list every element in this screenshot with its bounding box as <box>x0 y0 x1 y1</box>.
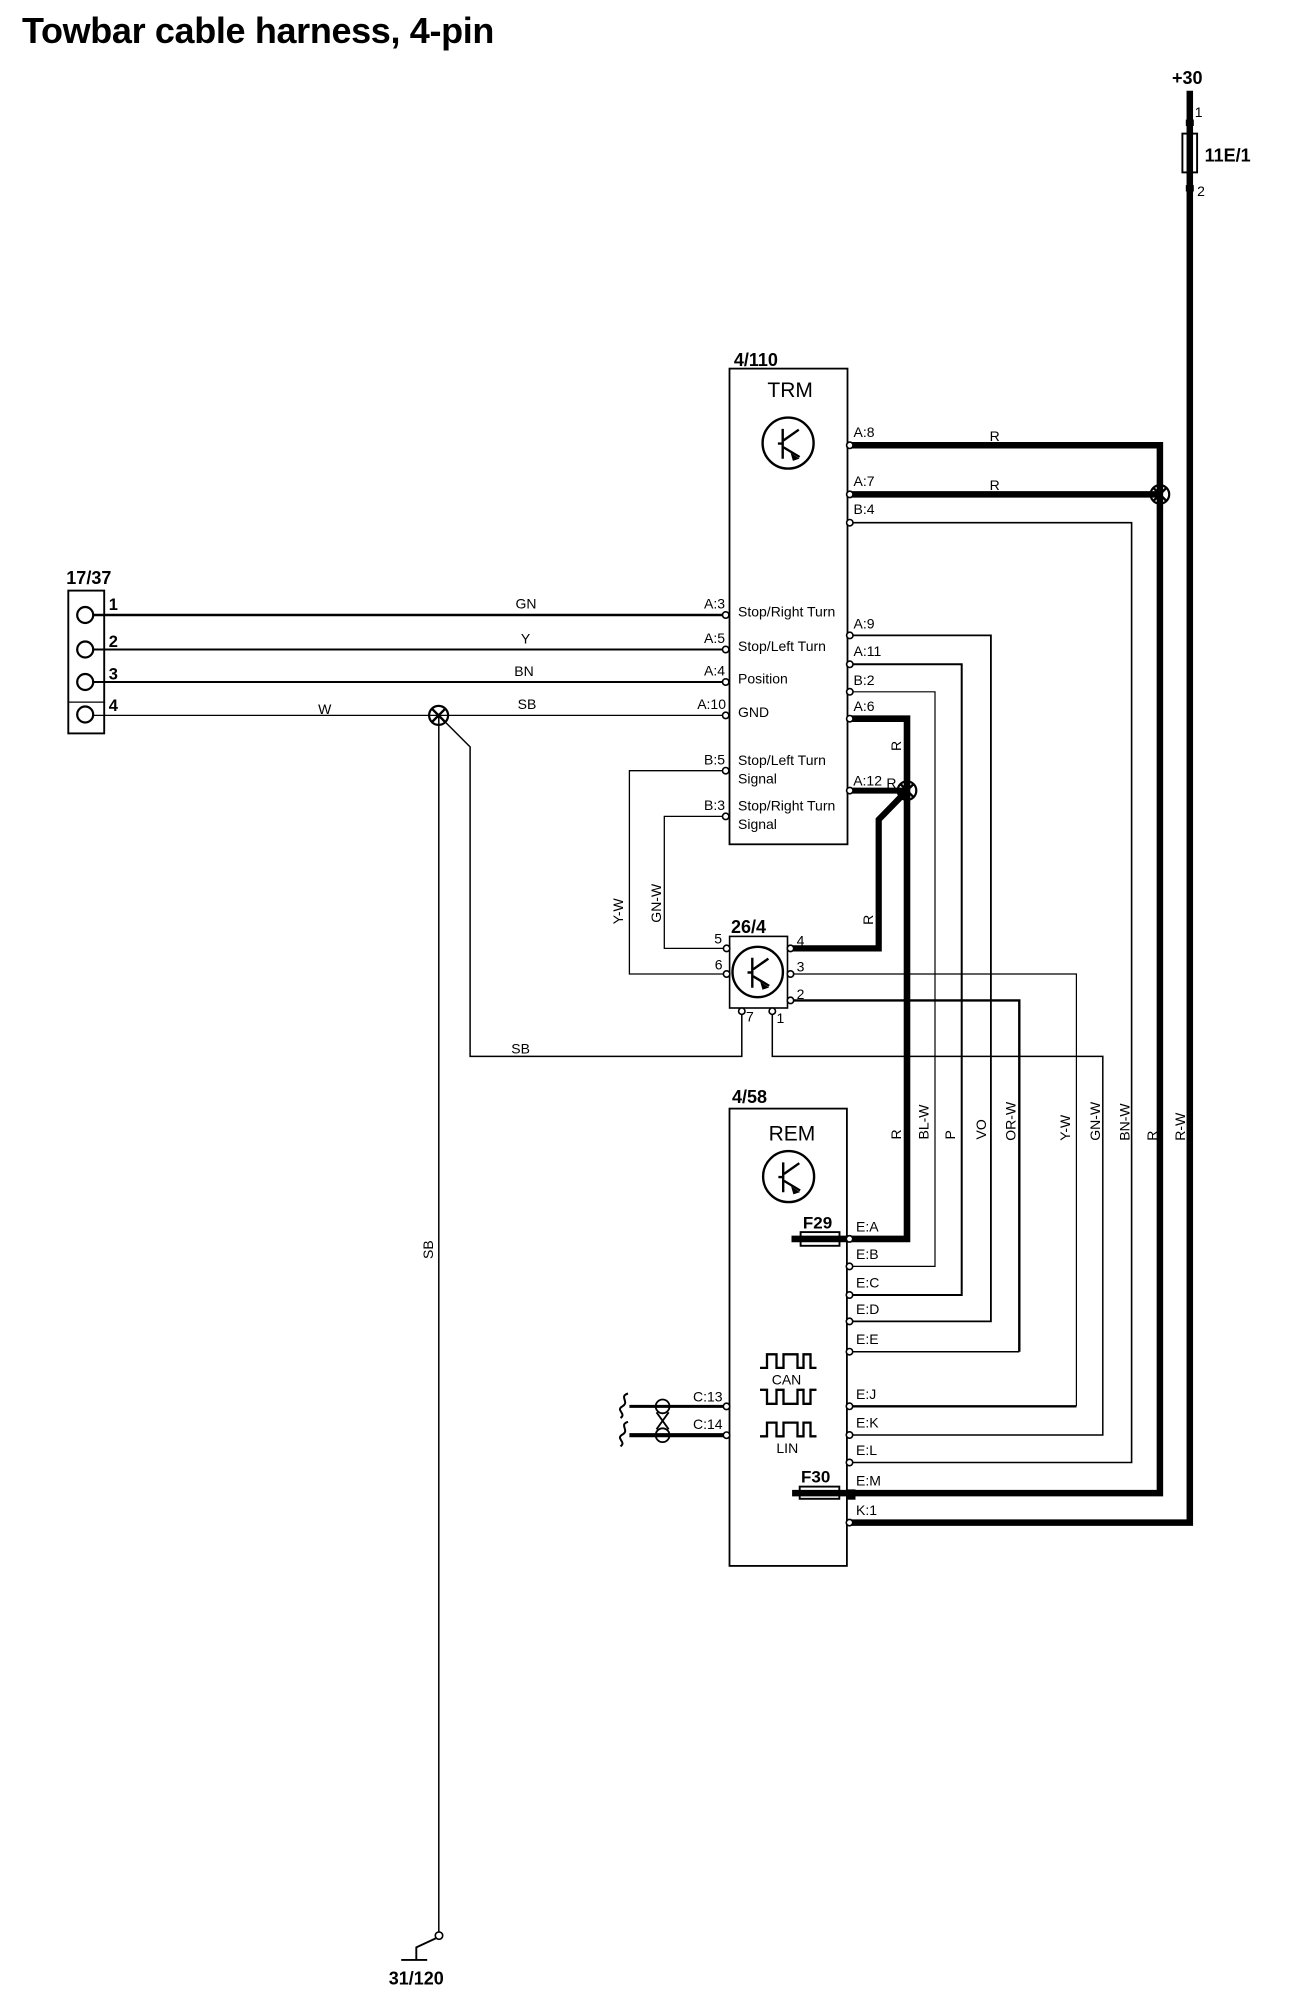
wire SB from junction down to ground 31/120 <box>438 715 440 1932</box>
connector 17/37 pin 3 circle <box>77 674 93 690</box>
svg-text:R: R <box>1144 1131 1160 1141</box>
svg-text:E:J: E:J <box>856 1386 876 1402</box>
CAN bus symbol square wave lower <box>760 1390 817 1404</box>
fuse 11E/1 <box>1182 134 1197 173</box>
svg-text:REM: REM <box>769 1123 816 1146</box>
REM pin circle E:D <box>846 1318 852 1324</box>
svg-text:K:1: K:1 <box>856 1502 877 1518</box>
TRM pin circle A:3 <box>723 612 729 618</box>
svg-text:R-W: R-W <box>1172 1112 1188 1141</box>
svg-text:Towbar cable harness, 4-pin: Towbar cable harness, 4-pin <box>22 10 494 51</box>
TRM pin circle A:11 <box>847 661 853 667</box>
26/4 pin circle 5 <box>723 945 729 951</box>
svg-text:Y: Y <box>521 631 531 647</box>
26/4 pin circle 7 <box>739 1008 745 1014</box>
connector 17/37 body <box>68 591 104 734</box>
svg-text:BN-W: BN-W <box>1116 1103 1132 1141</box>
svg-text:VO: VO <box>973 1119 989 1139</box>
svg-text:R: R <box>990 428 1000 444</box>
wire BN-W from TRM B:4 down to REM E:L <box>848 523 1132 1463</box>
svg-text:A:7: A:7 <box>854 473 875 489</box>
TRM pin circle B:4 <box>847 520 853 526</box>
wire R from TRM A:12 to junction <box>848 788 908 794</box>
fuse F30 inside REM <box>800 1487 840 1499</box>
svg-text:C:14: C:14 <box>693 1416 723 1432</box>
26/4 pin circle 1 <box>769 1008 775 1014</box>
svg-text:E:K: E:K <box>856 1415 879 1431</box>
svg-text:GND: GND <box>738 704 769 720</box>
junction (solder point) W/SB wire <box>429 706 448 725</box>
svg-text:2: 2 <box>1197 183 1205 199</box>
TRM pin circle B:3 <box>723 813 729 819</box>
svg-text:A:8: A:8 <box>854 424 875 440</box>
REM pin circle E:B <box>846 1263 852 1269</box>
svg-text:F29: F29 <box>803 1214 832 1233</box>
svg-text:11E/1: 11E/1 <box>1205 145 1251 165</box>
svg-text:E:A: E:A <box>856 1218 879 1234</box>
control unit REM 4/58 box <box>730 1109 847 1566</box>
wire C:13 twisted pair upper <box>629 1405 727 1408</box>
svg-text:E:M: E:M <box>856 1473 881 1489</box>
svg-text:F30: F30 <box>801 1468 830 1487</box>
control unit TRM 4/110 box <box>730 369 848 845</box>
svg-text:4/58: 4/58 <box>732 1087 767 1107</box>
svg-text:Position: Position <box>738 671 788 687</box>
svg-text:5: 5 <box>714 931 722 947</box>
wire R from TRM A:6 down to junction, then to REM E:A through F29 <box>792 719 908 1239</box>
wire BL-W from TRM B:2 down to REM E:B <box>848 692 936 1267</box>
harness break squiggle C:14 <box>620 1422 628 1447</box>
svg-text:A:6: A:6 <box>854 698 875 714</box>
CAN bus symbol square wave upper <box>760 1354 817 1368</box>
svg-text:3: 3 <box>797 959 805 975</box>
svg-text:R: R <box>990 477 1000 493</box>
TRM pin circle A:4 <box>723 679 729 685</box>
svg-text:2: 2 <box>109 633 118 651</box>
wire R from TRM A:7 to junction on R line <box>848 491 1160 498</box>
svg-text:SB: SB <box>518 696 537 712</box>
svg-text:A:12: A:12 <box>853 773 882 789</box>
svg-text:Signal: Signal <box>738 770 777 786</box>
svg-text:A:11: A:11 <box>854 643 882 659</box>
REM pin square E:M <box>846 1489 856 1499</box>
wire R-W from +30 fuse 11E/1 down to REM K:1 <box>847 91 1190 1523</box>
transistor symbol inside REM <box>763 1151 814 1202</box>
connector 17/37 pin 1 circle <box>77 607 93 623</box>
wire Y-W into REM E:J <box>850 1405 1077 1407</box>
transistor symbol inside 26/4 <box>733 947 783 997</box>
relay 26/4 box <box>730 936 788 1008</box>
svg-text:Stop/Left Turn: Stop/Left Turn <box>738 752 826 768</box>
wire GN from connector pin 1 to TRM A:3 <box>93 614 729 617</box>
svg-text:26/4: 26/4 <box>731 917 766 937</box>
TRM pin circle A:12 <box>847 787 853 793</box>
svg-text:R: R <box>888 741 904 751</box>
harness break squiggle C:13 <box>620 1394 628 1419</box>
fuse F29 inside REM <box>801 1232 840 1246</box>
svg-text:7: 7 <box>746 1008 754 1024</box>
svg-text:SB: SB <box>511 1040 530 1056</box>
TRM pin circle A:10 <box>723 712 729 718</box>
wire R from junction down-left to 26/4 pin 4 <box>790 791 908 949</box>
svg-text:A:3: A:3 <box>704 596 725 612</box>
svg-text:C:13: C:13 <box>693 1388 723 1404</box>
svg-text:17/37: 17/37 <box>66 568 111 588</box>
svg-text:31/120: 31/120 <box>389 1969 444 1989</box>
svg-text:GN-W: GN-W <box>648 883 664 923</box>
wire OR-W from 26/4 pin 2 down right side <box>788 1000 1020 1351</box>
svg-text:Stop/Left Turn: Stop/Left Turn <box>738 638 826 654</box>
wire GN-W from TRM B:3 loop to 26/4 pin 5 <box>664 816 729 948</box>
wire R from TRM A:8 right, down right side, into F30/E:M <box>792 445 1160 1493</box>
TRM pin circle A:5 <box>723 646 729 652</box>
wire GN-W from 26/4 pin 1 down to REM E:K <box>772 1014 1103 1435</box>
svg-text:R: R <box>888 1129 904 1139</box>
svg-text:E:L: E:L <box>856 1442 877 1458</box>
26/4 pin circle 2 <box>787 997 793 1003</box>
connector 17/37 pin 2 circle <box>77 642 93 658</box>
wire W/SB from connector pin 4 to TRM A:10 <box>93 714 729 716</box>
REM pin circle C:13 <box>723 1403 729 1409</box>
svg-text:LIN: LIN <box>776 1440 798 1456</box>
svg-text:A:10: A:10 <box>697 696 726 712</box>
wire Y-W from TRM B:5 loop to 26/4 pin 6 <box>629 771 729 974</box>
svg-text:BL-W: BL-W <box>916 1104 932 1140</box>
svg-text:B:4: B:4 <box>854 501 875 517</box>
svg-text:+30: +30 <box>1172 68 1203 88</box>
svg-text:1: 1 <box>1195 104 1203 120</box>
terminal dot pin 2 of 11E/1 <box>1186 185 1194 191</box>
wire Y from connector pin 2 to TRM A:5 <box>93 649 729 651</box>
svg-text:4: 4 <box>109 697 119 715</box>
wire OR-W into REM E:E <box>850 1351 1020 1353</box>
26/4 pin circle 4 <box>787 945 793 951</box>
twisted pair symbol circle on C:14 <box>656 1428 670 1442</box>
TRM pin circle A:9 <box>847 632 853 638</box>
REM pin circle K:1 <box>846 1519 852 1525</box>
svg-text:Stop/Right Turn: Stop/Right Turn <box>738 798 835 814</box>
svg-text:E:B: E:B <box>856 1246 879 1262</box>
svg-text:A:9: A:9 <box>854 615 875 631</box>
svg-text:SB: SB <box>420 1240 436 1259</box>
connector 17/37 divider <box>68 701 104 703</box>
svg-text:E:C: E:C <box>856 1275 879 1291</box>
TRM pin circle A:7 <box>847 491 853 497</box>
svg-text:R: R <box>886 775 896 791</box>
svg-text:4: 4 <box>797 933 805 949</box>
junction (solder point) A:7/A:8 on R line <box>1151 485 1170 504</box>
svg-text:2: 2 <box>797 986 805 1002</box>
svg-text:OR-W: OR-W <box>1002 1101 1018 1141</box>
26/4 pin circle 3 <box>787 971 793 977</box>
svg-text:B:5: B:5 <box>704 751 725 767</box>
wire VO from TRM A:9 down to REM E:D <box>848 635 991 1321</box>
svg-text:B:2: B:2 <box>854 672 875 688</box>
ground symbol 31/120 <box>401 1932 442 1960</box>
REM pin circle E:E <box>846 1349 852 1355</box>
REM pin circle E:L <box>846 1459 852 1465</box>
TRM pin circle A:6 <box>847 716 853 722</box>
svg-text:TRM: TRM <box>767 379 813 402</box>
svg-text:1: 1 <box>777 1010 785 1026</box>
svg-text:3: 3 <box>109 666 118 684</box>
terminal dot pin 1 of 11E/1 <box>1186 120 1194 126</box>
svg-text:A:5: A:5 <box>704 630 725 646</box>
wire C:14 twisted pair lower <box>629 1433 727 1437</box>
svg-text:R: R <box>860 915 876 925</box>
svg-text:BN: BN <box>514 663 533 679</box>
REM pin circle E:C <box>846 1292 852 1298</box>
connector 17/37 pin 4 circle <box>77 707 93 723</box>
wire SB from 26/4 pin 7 left to junction on W wire <box>439 715 742 1056</box>
svg-text:E:D: E:D <box>856 1301 879 1317</box>
svg-text:GN: GN <box>516 596 537 612</box>
svg-text:GN-W: GN-W <box>1087 1101 1103 1141</box>
svg-text:6: 6 <box>715 957 723 973</box>
svg-text:1: 1 <box>109 596 118 614</box>
svg-text:A:4: A:4 <box>704 663 725 679</box>
svg-text:CAN: CAN <box>772 1371 802 1387</box>
wire BN from connector pin 3 to TRM A:4 <box>93 681 729 683</box>
REM pin circle E:J <box>846 1403 852 1409</box>
junction (solder point) A:6/A:12 on R line <box>898 781 917 800</box>
REM pin circle C:14 <box>723 1432 729 1438</box>
wire Y-W from 26/4 pin 3 down to E:J vertical <box>788 974 1077 1406</box>
TRM pin circle A:8 <box>847 442 853 448</box>
LIN bus symbol square wave <box>760 1423 817 1437</box>
TRM pin circle B:2 <box>847 689 853 695</box>
svg-text:Y-W: Y-W <box>1057 1114 1073 1141</box>
svg-text:W: W <box>318 701 332 717</box>
REM pin circle E:A <box>846 1236 852 1242</box>
TRM pin circle B:5 <box>723 768 729 774</box>
twisted pair crossover X <box>657 1412 669 1429</box>
svg-text:Stop/Right Turn: Stop/Right Turn <box>738 604 835 620</box>
transistor symbol inside TRM <box>763 418 814 469</box>
wire P from TRM A:11 down to REM E:C <box>848 664 962 1295</box>
svg-text:Signal: Signal <box>738 816 777 832</box>
26/4 pin circle 6 <box>723 971 729 977</box>
svg-text:P: P <box>942 1130 958 1139</box>
svg-text:4/110: 4/110 <box>734 350 778 370</box>
REM pin circle E:K <box>846 1432 852 1438</box>
twisted pair symbol circle on C:13 <box>656 1400 670 1414</box>
svg-text:B:3: B:3 <box>704 797 725 813</box>
svg-text:E:E: E:E <box>856 1331 879 1347</box>
svg-text:Y-W: Y-W <box>610 897 626 924</box>
